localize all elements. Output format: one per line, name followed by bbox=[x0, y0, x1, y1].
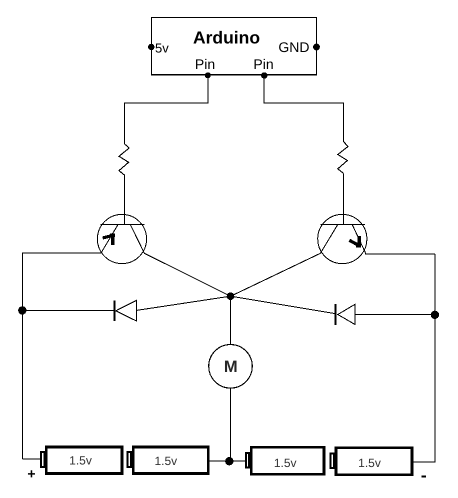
terminal dot Pin right bbox=[261, 72, 267, 78]
wire motor to battery center tap bbox=[230, 388, 232, 461]
diode D1 triangle bbox=[116, 300, 137, 321]
diode D2 cathode bar bbox=[335, 304, 337, 325]
battery cell BT2 nub bbox=[128, 452, 131, 467]
wire center node to motor bbox=[230, 296, 232, 344]
battery cell BT4 nub bbox=[331, 453, 334, 468]
wire left rail vertical bbox=[21, 253, 23, 460]
wire right rail vertical bbox=[434, 254, 436, 462]
svg-text:1.5v: 1.5v bbox=[154, 454, 177, 468]
battery cell BT1 nub bbox=[41, 452, 44, 467]
svg-text:M: M bbox=[224, 358, 238, 376]
wire center node to diode D2 cathode bbox=[231, 296, 336, 313]
resistor R2 bbox=[338, 142, 348, 174]
motor M1 circle bbox=[209, 345, 253, 389]
resistor R1 bbox=[119, 144, 129, 175]
svg-text:GND: GND bbox=[278, 39, 309, 55]
terminal dot 5v bbox=[148, 44, 154, 50]
terminal dot Pin left bbox=[205, 72, 211, 78]
terminal dot GND bbox=[313, 44, 320, 51]
wire Pin-left to resistor R1 bbox=[125, 76, 208, 144]
transistor Q1 emitter segment bbox=[101, 224, 118, 253]
transistor Q2 emitter segment bbox=[352, 224, 366, 254]
transistor Q1 emitter arrow bbox=[103, 234, 115, 246]
wire diode D1 anode to center node bbox=[136, 296, 230, 310]
wire diode D2 anode to right rail bbox=[355, 314, 435, 316]
wire R2 to Q2 base bbox=[342, 173, 344, 224]
transistor Q2 body circle bbox=[318, 214, 367, 263]
wire left rail to diode D1 cathode bbox=[22, 309, 113, 311]
diode D2 triangle bbox=[338, 304, 355, 324]
svg-text:1.5v: 1.5v bbox=[274, 456, 297, 470]
wire Q2 emitter to right rail bbox=[365, 253, 435, 255]
wire left rail to battery plus bbox=[22, 458, 41, 460]
svg-text:Pin: Pin bbox=[195, 56, 215, 72]
diode D1 cathode bar bbox=[114, 301, 116, 322]
node right rail junction bbox=[431, 311, 439, 319]
wire BT2 to center tap bbox=[210, 460, 230, 462]
wire Q1 collector to center node bbox=[144, 253, 230, 296]
svg-text:Arduino: Arduino bbox=[193, 28, 260, 48]
wire Pin-right to resistor R2 bbox=[264, 76, 343, 142]
battery cell BT2 body bbox=[133, 447, 208, 474]
battery cell BT3 body bbox=[251, 447, 324, 474]
node left rail junction bbox=[18, 306, 26, 314]
transistor Q1 base bar bbox=[101, 223, 145, 225]
transistor Q2 base bar bbox=[320, 223, 365, 225]
battery cell BT4 body bbox=[336, 448, 412, 475]
svg-text:Pin: Pin bbox=[253, 56, 273, 72]
svg-text:1.5v: 1.5v bbox=[69, 454, 92, 468]
svg-text:1.5v: 1.5v bbox=[358, 456, 381, 470]
wire Q1 emitter to left rail bbox=[22, 252, 101, 254]
wire right rail to battery minus bbox=[413, 461, 435, 463]
node battery center tap bbox=[225, 457, 233, 465]
transistor Q1 collector segment bbox=[130, 224, 144, 253]
wire center tap to BT3 bbox=[229, 460, 245, 462]
Arduino board U1 box bbox=[152, 18, 317, 75]
node center junction bbox=[227, 292, 235, 300]
label - terminal bbox=[422, 475, 427, 477]
svg-text:5v: 5v bbox=[155, 41, 169, 56]
wire Q2 collector to center node bbox=[231, 253, 321, 296]
transistor Q1 body circle bbox=[97, 214, 146, 263]
wire R1 to Q1 base bbox=[124, 175, 126, 224]
battery cell BT1 body bbox=[46, 447, 122, 474]
svg-text:+: + bbox=[27, 466, 35, 482]
battery cell BT3 nub bbox=[246, 453, 249, 468]
transistor Q2 emitter arrow bbox=[349, 236, 361, 247]
transistor Q2 collector segment bbox=[320, 224, 338, 253]
